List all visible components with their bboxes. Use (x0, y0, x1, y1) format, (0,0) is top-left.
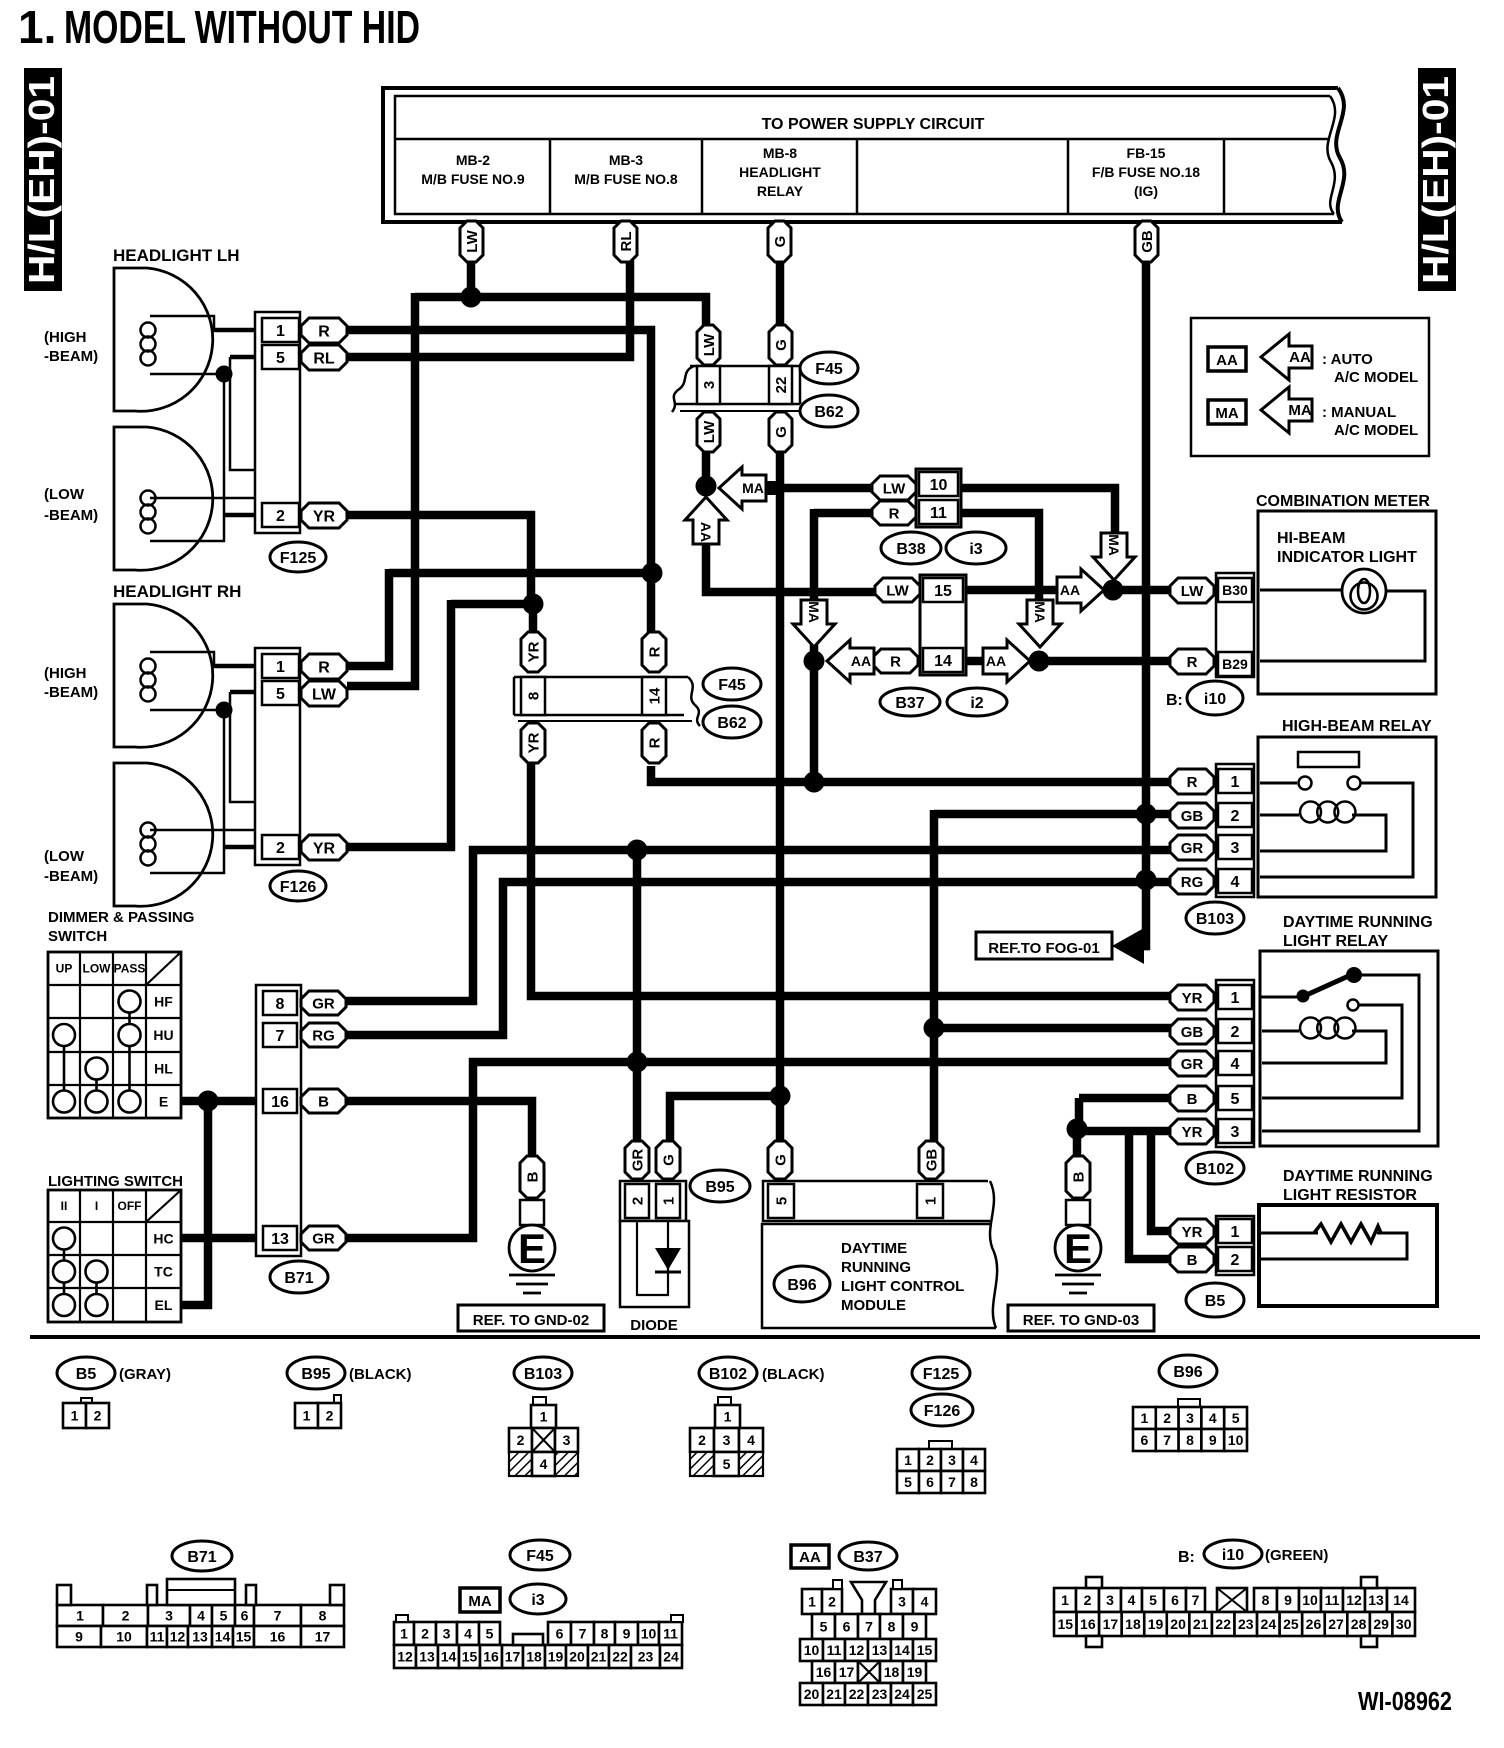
svg-text:1: 1 (540, 1409, 548, 1425)
svg-text:5: 5 (276, 686, 285, 703)
svg-text:GB: GB (923, 1149, 940, 1172)
svg-text:3: 3 (443, 1626, 451, 1642)
svg-text:REF.TO FOG-01: REF.TO FOG-01 (988, 940, 1099, 957)
svg-text:10: 10 (641, 1626, 657, 1642)
svg-text:B38: B38 (896, 541, 925, 558)
svg-text:6: 6 (1141, 1432, 1149, 1448)
svg-text:2: 2 (326, 1408, 334, 1424)
svg-text:(HIGH: (HIGH (44, 329, 87, 346)
svg-text:3: 3 (1106, 1592, 1114, 1608)
svg-text:8: 8 (319, 1608, 327, 1624)
svg-text:YR: YR (1182, 990, 1203, 1007)
svg-text:HF: HF (154, 994, 173, 1010)
svg-text:M/B FUSE NO.8: M/B FUSE NO.8 (574, 171, 678, 187)
svg-text:11: 11 (1325, 1592, 1340, 1608)
svg-text:4: 4 (197, 1608, 205, 1624)
svg-text:G: G (773, 426, 790, 438)
svg-text:LW: LW (464, 229, 481, 252)
svg-text:M/B FUSE NO.9: M/B FUSE NO.9 (421, 171, 525, 187)
svg-text:26: 26 (1306, 1616, 1322, 1632)
svg-text:4: 4 (747, 1432, 755, 1448)
svg-text:YR: YR (313, 840, 336, 857)
svg-text:HL: HL (154, 1061, 173, 1077)
svg-text:INDICATOR LIGHT: INDICATOR LIGHT (1277, 549, 1417, 566)
svg-text:22: 22 (612, 1649, 628, 1665)
svg-text:3: 3 (1231, 1124, 1240, 1141)
svg-text:1: 1 (724, 1409, 732, 1425)
svg-text:B95: B95 (301, 1366, 330, 1383)
svg-text:LW: LW (886, 582, 909, 599)
svg-text:B103: B103 (1196, 911, 1234, 928)
svg-text:GR: GR (629, 1149, 646, 1172)
svg-text:9: 9 (911, 1619, 919, 1635)
svg-text:AA: AA (851, 653, 871, 669)
svg-text:MODEL WITHOUT HID: MODEL WITHOUT HID (64, 1, 420, 53)
svg-text:(LOW: (LOW (44, 486, 85, 503)
svg-text:1: 1 (276, 659, 285, 676)
svg-text:3: 3 (701, 381, 718, 389)
svg-text:MA: MA (1032, 601, 1048, 623)
svg-text:B: B (524, 1171, 541, 1182)
svg-text:5: 5 (904, 1474, 912, 1490)
svg-text:5: 5 (1231, 1091, 1240, 1108)
svg-text:18: 18 (1125, 1616, 1141, 1632)
svg-text:2: 2 (926, 1452, 934, 1468)
svg-text:20: 20 (804, 1686, 820, 1702)
svg-text:i10: i10 (1204, 691, 1226, 708)
svg-text:B: B (1187, 1091, 1198, 1108)
svg-text:B102: B102 (709, 1366, 747, 1383)
svg-text:F125: F125 (923, 1366, 960, 1383)
svg-text:7: 7 (274, 1608, 282, 1624)
svg-text:i3: i3 (531, 1592, 544, 1609)
svg-text:8: 8 (601, 1626, 609, 1642)
svg-text:1: 1 (1141, 1410, 1149, 1426)
svg-text:19: 19 (548, 1649, 564, 1665)
svg-text:AA: AA (799, 1549, 821, 1566)
svg-text:SWITCH: SWITCH (48, 928, 107, 945)
svg-text:LIGHT RELAY: LIGHT RELAY (1283, 933, 1389, 950)
svg-text:2: 2 (517, 1432, 525, 1448)
svg-text:MB-2: MB-2 (456, 152, 490, 168)
svg-text:2: 2 (94, 1408, 102, 1424)
svg-text:15: 15 (1057, 1616, 1073, 1632)
svg-text:10: 10 (116, 1629, 132, 1645)
svg-text:29: 29 (1373, 1616, 1389, 1632)
svg-text:B95: B95 (705, 1179, 734, 1196)
svg-text:3: 3 (165, 1608, 173, 1624)
svg-text:6: 6 (241, 1608, 249, 1624)
svg-text:1: 1 (1231, 990, 1240, 1007)
svg-text:17: 17 (1103, 1616, 1119, 1632)
svg-text:YR: YR (313, 508, 336, 525)
svg-text:13: 13 (1368, 1592, 1384, 1608)
svg-text:23: 23 (872, 1686, 888, 1702)
svg-text:HC: HC (153, 1231, 173, 1247)
svg-text:5: 5 (723, 1456, 731, 1472)
svg-text:HEADLIGHT RH: HEADLIGHT RH (113, 582, 241, 601)
svg-text:LW: LW (883, 480, 906, 497)
svg-text:i2: i2 (970, 695, 983, 712)
svg-text:R: R (1187, 654, 1198, 671)
svg-text:(HIGH: (HIGH (44, 665, 87, 682)
svg-text:10: 10 (1228, 1432, 1244, 1448)
svg-text:1: 1 (1231, 1224, 1240, 1241)
svg-text:22: 22 (773, 377, 790, 394)
svg-text:1: 1 (71, 1408, 79, 1424)
svg-text:TO POWER SUPPLY CIRCUIT: TO POWER SUPPLY CIRCUIT (762, 116, 985, 133)
svg-text:7: 7 (1192, 1592, 1200, 1608)
svg-text:4: 4 (1128, 1592, 1136, 1608)
svg-text:-BEAM): -BEAM) (44, 507, 98, 524)
svg-text:i3: i3 (969, 541, 982, 558)
svg-text:I: I (95, 1199, 98, 1213)
svg-text:B5: B5 (1205, 1293, 1226, 1310)
svg-text:8: 8 (1186, 1432, 1194, 1448)
svg-text:4: 4 (1231, 874, 1240, 891)
svg-text:14: 14 (1393, 1592, 1409, 1608)
svg-text:8: 8 (1262, 1592, 1270, 1608)
svg-text:7: 7 (276, 1028, 285, 1045)
svg-text:11: 11 (930, 505, 947, 522)
svg-text:G: G (772, 236, 789, 248)
svg-text:4: 4 (970, 1452, 978, 1468)
svg-text:GB: GB (1181, 1024, 1204, 1041)
svg-text:2: 2 (1084, 1592, 1092, 1608)
svg-text:B37: B37 (853, 1549, 882, 1566)
svg-text:FB-15: FB-15 (1127, 145, 1166, 161)
svg-text:G: G (772, 1154, 789, 1166)
svg-text:23: 23 (1238, 1616, 1254, 1632)
svg-text:10: 10 (804, 1642, 820, 1658)
svg-text:1: 1 (303, 1408, 311, 1424)
svg-text:R: R (889, 505, 900, 522)
svg-text:28: 28 (1351, 1616, 1367, 1632)
svg-text:HEADLIGHT LH: HEADLIGHT LH (113, 246, 240, 265)
svg-text:B62: B62 (814, 404, 843, 421)
svg-text:B30: B30 (1222, 582, 1248, 598)
svg-text:1: 1 (76, 1608, 84, 1624)
svg-text:9: 9 (75, 1629, 83, 1645)
svg-text:8: 8 (276, 996, 285, 1013)
svg-text:EL: EL (155, 1297, 173, 1313)
svg-text:22: 22 (849, 1686, 865, 1702)
svg-text:5: 5 (486, 1626, 494, 1642)
svg-text:R: R (318, 323, 330, 340)
svg-text:4: 4 (921, 1594, 929, 1610)
svg-text:LW: LW (312, 686, 337, 703)
svg-text:12: 12 (397, 1649, 413, 1665)
svg-text:B5: B5 (76, 1366, 97, 1383)
svg-text:7: 7 (1163, 1432, 1171, 1448)
svg-text:H/L(EH)-01: H/L(EH)-01 (21, 76, 62, 284)
svg-text:9: 9 (623, 1626, 631, 1642)
svg-text:12: 12 (170, 1629, 186, 1645)
svg-text:14: 14 (646, 687, 663, 704)
svg-text:11: 11 (663, 1626, 678, 1642)
svg-text:11: 11 (827, 1642, 842, 1658)
svg-text:5: 5 (773, 1197, 790, 1205)
svg-text:1: 1 (400, 1626, 408, 1642)
svg-text:13: 13 (419, 1649, 435, 1665)
svg-text:B:: B: (1166, 692, 1183, 709)
svg-text:E: E (1064, 1225, 1092, 1272)
svg-text:YR: YR (1182, 1224, 1203, 1241)
svg-text:LOW: LOW (83, 962, 112, 976)
svg-text:DAYTIME RUNNING: DAYTIME RUNNING (1283, 914, 1433, 931)
svg-text:(GREEN): (GREEN) (1265, 1547, 1328, 1564)
svg-text:: MANUAL: : MANUAL (1322, 404, 1396, 421)
svg-text:16: 16 (1080, 1616, 1096, 1632)
svg-text:7: 7 (579, 1626, 587, 1642)
svg-text:3: 3 (948, 1452, 956, 1468)
svg-text:RG: RG (1181, 874, 1204, 891)
svg-text:2: 2 (828, 1594, 836, 1610)
svg-text:B62: B62 (717, 715, 746, 732)
svg-text:: AUTO: : AUTO (1322, 351, 1373, 368)
svg-text:F126: F126 (280, 879, 317, 896)
svg-text:5: 5 (276, 350, 285, 367)
svg-text:GB: GB (1139, 230, 1156, 253)
svg-text:15: 15 (462, 1649, 478, 1665)
svg-text:1.: 1. (18, 1, 56, 53)
svg-text:15: 15 (917, 1642, 933, 1658)
svg-text:MA: MA (1215, 405, 1238, 422)
svg-text:HU: HU (153, 1027, 173, 1043)
svg-text:B71: B71 (187, 1549, 216, 1566)
svg-text:YR: YR (525, 641, 542, 662)
svg-text:1: 1 (276, 323, 285, 340)
svg-text:23: 23 (638, 1649, 654, 1665)
svg-text:OFF: OFF (118, 1199, 142, 1213)
svg-text:2: 2 (1163, 1410, 1171, 1426)
svg-text:UP: UP (56, 962, 73, 976)
svg-text:(BLACK): (BLACK) (762, 1366, 824, 1383)
svg-text:LW: LW (701, 333, 718, 356)
svg-text:MA: MA (1106, 534, 1122, 556)
svg-text:2: 2 (629, 1197, 646, 1205)
svg-text:1: 1 (1061, 1592, 1069, 1608)
svg-text:A/C MODEL: A/C MODEL (1334, 369, 1418, 386)
svg-text:14: 14 (934, 653, 952, 670)
svg-text:HEADLIGHT: HEADLIGHT (739, 164, 821, 180)
svg-text:18: 18 (526, 1649, 542, 1665)
svg-text:MODULE: MODULE (841, 1297, 906, 1314)
svg-text:21: 21 (1193, 1616, 1209, 1632)
svg-text:5: 5 (1232, 1410, 1240, 1426)
svg-text:20: 20 (1170, 1616, 1186, 1632)
svg-text:AA: AA (1289, 349, 1311, 366)
svg-text:4: 4 (540, 1456, 548, 1472)
svg-text:B71: B71 (284, 1270, 313, 1287)
svg-text:2: 2 (1231, 808, 1240, 825)
svg-text:2: 2 (122, 1608, 130, 1624)
svg-text:i10: i10 (1222, 1547, 1244, 1564)
svg-text:1: 1 (660, 1197, 677, 1205)
svg-text:27: 27 (1328, 1616, 1344, 1632)
svg-text:YR: YR (1182, 1124, 1203, 1141)
svg-text:H/L(EH)-01: H/L(EH)-01 (1415, 76, 1456, 284)
svg-text:A/C MODEL: A/C MODEL (1334, 422, 1418, 439)
svg-text:9: 9 (1209, 1432, 1217, 1448)
svg-text:B29: B29 (1222, 656, 1248, 672)
svg-text:GR: GR (312, 1230, 335, 1247)
svg-text:2: 2 (276, 840, 285, 857)
svg-text:21: 21 (826, 1686, 842, 1702)
svg-text:LIGHT RESISTOR: LIGHT RESISTOR (1283, 1187, 1417, 1204)
svg-text:R: R (318, 659, 330, 676)
svg-text:COMBINATION METER: COMBINATION METER (1256, 493, 1430, 510)
svg-text:19: 19 (1148, 1616, 1164, 1632)
svg-text:RL: RL (618, 232, 635, 252)
svg-text:2: 2 (698, 1432, 706, 1448)
svg-text:13: 13 (872, 1642, 888, 1658)
svg-text:(BLACK): (BLACK) (349, 1366, 411, 1383)
svg-text:-BEAM): -BEAM) (44, 348, 98, 365)
svg-text:HI-BEAM: HI-BEAM (1277, 530, 1345, 547)
svg-text:R: R (646, 646, 663, 657)
svg-text:B: B (1070, 1171, 1087, 1182)
svg-text:3: 3 (1186, 1410, 1194, 1426)
svg-text:II: II (61, 1199, 68, 1213)
svg-text:B103: B103 (524, 1366, 562, 1383)
svg-text:5: 5 (220, 1608, 228, 1624)
svg-text:RELAY: RELAY (757, 183, 804, 199)
svg-text:4: 4 (464, 1626, 472, 1642)
svg-text:6: 6 (1171, 1592, 1179, 1608)
svg-text:6: 6 (556, 1626, 564, 1642)
svg-text:DIMMER & PASSING: DIMMER & PASSING (48, 909, 194, 926)
svg-text:LW: LW (1181, 583, 1204, 600)
svg-text:F126: F126 (924, 1403, 961, 1420)
svg-text:F45: F45 (526, 1548, 554, 1565)
svg-text:B96: B96 (787, 1277, 816, 1294)
svg-text:6: 6 (926, 1474, 934, 1490)
svg-text:RUNNING: RUNNING (841, 1259, 911, 1276)
svg-text:10: 10 (1302, 1592, 1318, 1608)
svg-text:3: 3 (898, 1594, 906, 1610)
svg-text:13: 13 (192, 1629, 208, 1645)
svg-text:3: 3 (563, 1432, 571, 1448)
svg-text:16: 16 (270, 1629, 286, 1645)
svg-text:GR: GR (312, 995, 335, 1012)
svg-text:MA: MA (742, 480, 764, 496)
svg-text:WI-08962: WI-08962 (1358, 1686, 1452, 1716)
svg-text:R: R (890, 653, 901, 670)
svg-text:3: 3 (1231, 840, 1240, 857)
svg-text:8: 8 (888, 1619, 896, 1635)
svg-text:F45: F45 (815, 361, 843, 378)
svg-text:TC: TC (154, 1264, 173, 1280)
svg-text:-BEAM): -BEAM) (44, 684, 98, 701)
svg-text:GR: GR (1181, 840, 1204, 857)
svg-text:(LOW: (LOW (44, 848, 85, 865)
svg-text:MB-3: MB-3 (609, 152, 643, 168)
svg-text:G: G (773, 339, 790, 351)
svg-text:AA: AA (698, 522, 714, 542)
svg-text:1: 1 (1231, 774, 1240, 791)
svg-text:R: R (646, 737, 663, 748)
svg-text:24: 24 (663, 1649, 679, 1665)
svg-text:25: 25 (917, 1686, 933, 1702)
svg-text:-BEAM): -BEAM) (44, 868, 98, 885)
svg-text:8: 8 (970, 1474, 978, 1490)
svg-text:DIODE: DIODE (630, 1317, 678, 1334)
svg-text:14: 14 (441, 1649, 457, 1665)
svg-text:E: E (518, 1225, 546, 1272)
svg-text:REF. TO GND-02: REF. TO GND-02 (473, 1312, 589, 1329)
svg-text:R: R (1187, 774, 1198, 791)
svg-text:B37: B37 (895, 695, 924, 712)
svg-text:1: 1 (922, 1197, 939, 1205)
svg-text:AA: AA (1216, 352, 1238, 369)
svg-text:LIGHT CONTROL: LIGHT CONTROL (841, 1278, 964, 1295)
svg-text:1: 1 (904, 1452, 912, 1468)
svg-text:MB-8: MB-8 (763, 145, 797, 161)
svg-text:7: 7 (865, 1619, 873, 1635)
svg-text:G: G (660, 1154, 677, 1166)
svg-text:12: 12 (1346, 1592, 1362, 1608)
svg-text:2: 2 (276, 508, 285, 525)
svg-text:14: 14 (894, 1642, 910, 1658)
svg-text:MA: MA (806, 601, 822, 623)
svg-text:4: 4 (1209, 1410, 1217, 1426)
svg-text:RG: RG (312, 1027, 335, 1044)
svg-text:B96: B96 (1173, 1364, 1202, 1381)
svg-text:2: 2 (421, 1626, 429, 1642)
svg-text:B:: B: (1178, 1549, 1195, 1566)
svg-text:15: 15 (236, 1629, 252, 1645)
svg-text:MA: MA (1288, 402, 1311, 419)
svg-text:GB: GB (1181, 808, 1204, 825)
svg-text:LIGHTING SWITCH: LIGHTING SWITCH (48, 1173, 183, 1190)
svg-text:HIGH-BEAM RELAY: HIGH-BEAM RELAY (1282, 718, 1432, 735)
svg-text:4: 4 (1231, 1056, 1240, 1073)
svg-text:30: 30 (1396, 1616, 1412, 1632)
svg-text:18: 18 (884, 1664, 900, 1680)
svg-text:E: E (159, 1094, 168, 1110)
svg-text:24: 24 (1261, 1616, 1277, 1632)
svg-text:DAYTIME RUNNING: DAYTIME RUNNING (1283, 1168, 1433, 1185)
svg-text:REF. TO GND-03: REF. TO GND-03 (1023, 1312, 1139, 1329)
svg-text:AA: AA (986, 653, 1006, 669)
svg-text:MA: MA (468, 1593, 491, 1610)
svg-text:22: 22 (1215, 1616, 1231, 1632)
svg-text:LW: LW (701, 420, 718, 443)
svg-text:6: 6 (843, 1619, 851, 1635)
svg-text:2: 2 (1231, 1024, 1240, 1041)
svg-text:17: 17 (839, 1664, 855, 1680)
svg-text:(IG): (IG) (1134, 183, 1158, 199)
svg-text:24: 24 (894, 1686, 910, 1702)
svg-text:YR: YR (525, 732, 542, 753)
svg-text:AA: AA (1060, 582, 1080, 598)
svg-text:21: 21 (591, 1649, 607, 1665)
svg-text:11: 11 (150, 1629, 165, 1645)
svg-text:B: B (1187, 1252, 1198, 1269)
svg-text:16: 16 (271, 1094, 289, 1111)
svg-text:14: 14 (215, 1629, 231, 1645)
svg-text:PASS: PASS (114, 962, 146, 976)
svg-text:25: 25 (1283, 1616, 1299, 1632)
svg-text:B: B (318, 1093, 329, 1110)
svg-text:19: 19 (907, 1664, 923, 1680)
svg-text:3: 3 (723, 1432, 731, 1448)
svg-text:(GRAY): (GRAY) (119, 1366, 171, 1383)
svg-text:20: 20 (569, 1649, 585, 1665)
svg-text:5: 5 (1149, 1592, 1157, 1608)
svg-text:F45: F45 (718, 677, 746, 694)
